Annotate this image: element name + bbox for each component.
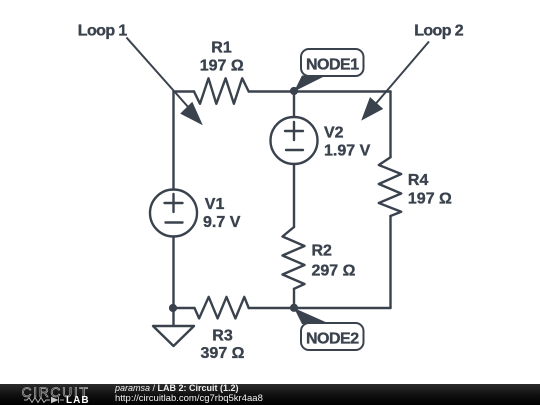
resistor R2: [283, 227, 305, 289]
callout pointer NODE1: [294, 76, 326, 92]
ground symbol: [153, 326, 194, 346]
callout box NODE2: [301, 323, 364, 350]
wire R4 to bottom-right corner: [389, 216, 391, 308]
svg-text:Loop 1: Loop 1: [78, 22, 128, 39]
logo schematic wire: [24, 397, 64, 403]
svg-text:9.7 V: 9.7 V: [203, 214, 241, 231]
svg-text:V1: V1: [205, 196, 225, 213]
wire R1 to node1: [249, 90, 294, 92]
wire V1 to ground node: [172, 237, 174, 309]
svg-text:R1: R1: [211, 40, 232, 57]
loop 2 arrow line: [367, 42, 429, 115]
voltage source V2: [271, 117, 318, 164]
voltage source V1: [150, 190, 197, 237]
wire node1 to top-right corner: [294, 90, 391, 92]
wire top from corner to right corner: [174, 90, 195, 92]
svg-text:V2: V2: [324, 124, 344, 141]
svg-text:NODE2: NODE2: [306, 330, 359, 347]
wire left column top: [172, 92, 174, 190]
svg-text:R3: R3: [212, 327, 233, 344]
svg-text:1.97 V: 1.97 V: [324, 143, 371, 160]
wire right corner down to R4: [389, 92, 391, 158]
loop 1 arrow line: [127, 38, 198, 118]
loop 2 arrowhead: [361, 97, 383, 121]
svg-text:Loop 2: Loop 2: [414, 22, 464, 39]
node dot NODE1: [290, 87, 298, 95]
node dot ground: [169, 304, 177, 312]
loop 1 arrowhead: [180, 102, 203, 126]
resistor R1: [194, 78, 249, 104]
svg-text:LAB: LAB: [66, 395, 90, 405]
svg-text:NODE1: NODE1: [306, 56, 359, 73]
node dot NODE2: [290, 304, 298, 312]
ground stem: [172, 308, 174, 327]
svg-text:http://circuitlab.com/cg7rbq5k: http://circuitlab.com/cg7rbq5kr4aa8: [115, 393, 263, 404]
svg-text:R2: R2: [312, 242, 333, 259]
svg-text:197 Ω: 197 Ω: [408, 191, 452, 208]
logo diode: [51, 397, 59, 403]
svg-text:397 Ω: 397 Ω: [201, 345, 245, 362]
callout box NODE1: [301, 49, 364, 76]
wire R3 to ground node: [174, 307, 195, 309]
svg-text:197 Ω: 197 Ω: [200, 58, 244, 75]
wire R2 to node2: [293, 289, 295, 308]
footer bar: [0, 384, 540, 405]
wire node2 to R3: [249, 307, 294, 309]
wire node1 to V2: [293, 92, 295, 118]
svg-text:paramsa / LAB 2: Circuit (1.2): paramsa / LAB 2: Circuit (1.2): [114, 383, 239, 393]
wire V2 to R2: [293, 164, 295, 227]
svg-text:297 Ω: 297 Ω: [312, 262, 356, 279]
svg-text:R4: R4: [408, 172, 429, 189]
resistor R4: [379, 157, 401, 216]
callout pointer NODE2: [294, 308, 330, 324]
wire bottom-right corner to node2: [294, 307, 391, 309]
resistor R3: [195, 297, 249, 319]
